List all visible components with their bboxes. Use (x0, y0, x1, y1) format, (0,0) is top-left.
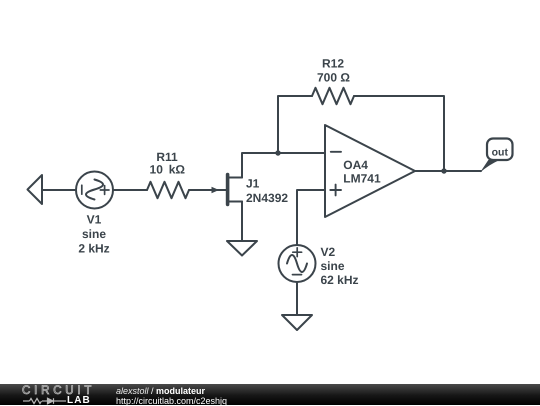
wire op-amp + input from V2 (297, 190, 325, 245)
svg-text:10 kΩ: 10 kΩ (150, 163, 186, 177)
svg-text:2 kHz: 2 kHz (78, 242, 109, 256)
node A junction dot (275, 150, 280, 155)
wire J1 source down (241, 202, 243, 242)
label OA4 value (343, 158, 381, 186)
footer credit text (116, 387, 227, 406)
svg-text:LM741: LM741 (343, 172, 381, 186)
transistor J1 (N-JFET) (212, 175, 243, 205)
svg-text:2N4392: 2N4392 (246, 191, 288, 205)
label R12 value (317, 57, 350, 85)
svg-text:62 kHz: 62 kHz (321, 273, 359, 287)
wire V2 to ground (296, 282, 298, 315)
wire V1 to R11 (113, 189, 147, 191)
svg-text:OA4: OA4 (343, 158, 368, 172)
wire J1 drain up (242, 153, 325, 178)
ground (V2) (282, 315, 312, 330)
label J1 value (246, 177, 288, 206)
resistor R11 (147, 182, 189, 198)
wire feedback right to output (354, 96, 444, 171)
op-amp U1 OA4 (325, 125, 415, 217)
resistor R12 (312, 88, 354, 104)
node B junction dot (441, 168, 446, 173)
label V1 value (78, 212, 109, 255)
svg-text:V2: V2 (321, 245, 336, 259)
wire port to V1 (42, 189, 76, 191)
footer bar (0, 384, 540, 405)
wire R11 to J1 gate (189, 189, 226, 191)
CircuitLab logo (22, 385, 96, 405)
svg-text:sine: sine (321, 259, 345, 273)
svg-text:700 Ω: 700 Ω (317, 71, 350, 85)
input port IN (28, 175, 43, 204)
ground (J1 source) (227, 241, 257, 256)
port out (480, 139, 513, 173)
voltage source V2 (279, 245, 316, 282)
wire feedback left riser (278, 96, 312, 153)
svg-text:R12: R12 (322, 57, 344, 71)
voltage source V1 (76, 172, 113, 209)
svg-text:sine: sine (82, 227, 106, 241)
label V2 value (321, 245, 359, 287)
label R11 value (150, 150, 186, 177)
svg-text:V1: V1 (87, 212, 102, 226)
svg-text:out: out (492, 147, 509, 159)
svg-text:J1: J1 (246, 177, 260, 191)
wire op-amp output (415, 170, 481, 172)
